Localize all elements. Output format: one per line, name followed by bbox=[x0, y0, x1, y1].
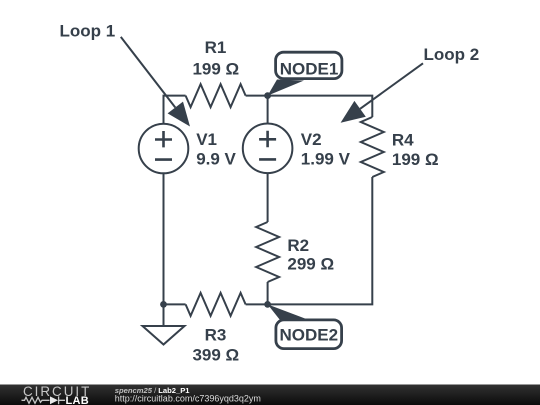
wire R4 bottom to bottom rail bbox=[268, 177, 373, 304]
svg-text:http://circuitlab.com/c7396yqd: http://circuitlab.com/c7396yqd3q2ym bbox=[115, 394, 261, 404]
svg-text:R1: R1 bbox=[205, 38, 227, 57]
svg-text:LAB: LAB bbox=[66, 395, 90, 405]
svg-text:Loop 1: Loop 1 bbox=[60, 21, 116, 40]
svg-text:R4: R4 bbox=[392, 130, 414, 149]
voltage source V2 bbox=[243, 124, 293, 174]
wire R3 to ground node bbox=[164, 303, 186, 305]
svg-text:299 Ω: 299 Ω bbox=[287, 255, 334, 274]
footer bar bbox=[0, 385, 540, 405]
resistor R4 bbox=[361, 117, 384, 177]
ground bbox=[143, 304, 185, 344]
node label NODE2 bbox=[268, 304, 342, 348]
annotation Loop 2 arrow bbox=[341, 63, 423, 123]
node label NODE1 bbox=[268, 52, 342, 95]
svg-text:199 Ω: 199 Ω bbox=[192, 60, 239, 79]
svg-text:9.9 V: 9.9 V bbox=[196, 150, 236, 169]
svg-text:V2: V2 bbox=[301, 130, 322, 149]
wire V1 bottom to ground node bbox=[163, 173, 165, 304]
wire R1 to NODE1 junction bbox=[246, 95, 268, 97]
svg-text:399 Ω: 399 Ω bbox=[192, 345, 239, 364]
wire V2 top to NODE1 junction bbox=[267, 96, 269, 124]
junction NODE2 dot bbox=[264, 301, 271, 308]
resistor R1 bbox=[186, 84, 246, 107]
wire NODE2 to R3 bbox=[246, 303, 268, 305]
logo CircuitLab wordmark bbox=[22, 384, 92, 405]
wire NODE1 to R4 top bbox=[268, 96, 373, 117]
svg-text:V1: V1 bbox=[196, 130, 217, 149]
wire R2 bottom to NODE2 junction bbox=[267, 282, 269, 304]
svg-text:NODE1: NODE1 bbox=[280, 60, 339, 79]
svg-text:R3: R3 bbox=[205, 326, 227, 345]
annotation Loop 1 arrow bbox=[121, 37, 190, 127]
svg-text:Loop 2: Loop 2 bbox=[424, 45, 480, 64]
svg-text:R2: R2 bbox=[287, 236, 309, 255]
resistor R2 bbox=[256, 222, 279, 282]
svg-text:1.99 V: 1.99 V bbox=[301, 150, 351, 169]
voltage source V1 bbox=[139, 124, 189, 174]
junction NODE1 dot bbox=[264, 92, 271, 99]
wire V2 bottom to R2 top bbox=[267, 173, 269, 222]
svg-text:NODE2: NODE2 bbox=[280, 325, 339, 344]
svg-text:199 Ω: 199 Ω bbox=[392, 150, 439, 169]
resistor R3 bbox=[186, 293, 246, 316]
wire V1 top to R1 bbox=[164, 96, 186, 124]
junction ground node dot bbox=[160, 301, 167, 308]
